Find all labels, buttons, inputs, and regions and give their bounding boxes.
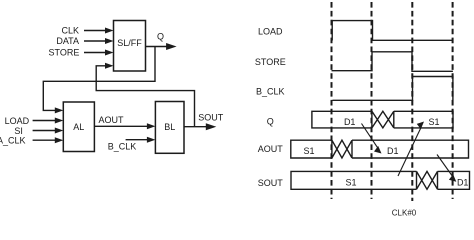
arrowhead AOUT — [147, 123, 156, 129]
svg-text:S1: S1 — [303, 146, 314, 156]
svg-text:A_CLK: A_CLK — [0, 136, 26, 146]
svg-text:LOAD: LOAD — [5, 116, 30, 126]
arrowhead scan feedback — [105, 63, 114, 69]
arrowhead A_CLK — [55, 137, 64, 143]
wire DATA — [84, 40, 106, 42]
svg-text:AOUT: AOUT — [99, 115, 125, 125]
dashed clock boundary 4 — [452, 2, 454, 199]
svg-text:SL/FF: SL/FF — [117, 38, 142, 48]
arrowhead LOAD — [55, 118, 64, 124]
bus Q — [312, 111, 453, 128]
arrowhead DATA — [105, 38, 114, 44]
arrowhead to Q S1 — [417, 122, 424, 130]
dashed clock boundary 1 — [331, 2, 333, 199]
arrowhead Q — [166, 43, 177, 50]
arrowhead to AOUT D1 — [374, 146, 382, 154]
block BL — [155, 102, 184, 154]
wire CLK — [84, 30, 106, 32]
svg-text:SOUT: SOUT — [258, 178, 284, 188]
svg-text:CLK: CLK — [61, 26, 79, 36]
dashed clock boundary 2 — [371, 2, 373, 199]
svg-text:DATA: DATA — [56, 36, 79, 46]
svg-text:B_CLK: B_CLK — [108, 142, 137, 152]
wire scan feedback into SL/FF — [96, 66, 194, 127]
svg-text:SI: SI — [14, 126, 23, 136]
svg-text:SOUT: SOUT — [198, 113, 224, 123]
waveform B_CLK — [333, 77, 453, 101]
svg-text:STORE: STORE — [49, 48, 80, 58]
wire A_CLK — [33, 139, 55, 141]
arrowhead Q feedback — [55, 107, 64, 113]
wire Q feedback to AL — [43, 47, 155, 111]
svg-text:STORE: STORE — [255, 57, 286, 67]
arrowhead to SOUT D1 — [449, 174, 456, 182]
wire B_CLK — [126, 139, 147, 141]
svg-text:Q: Q — [157, 32, 164, 42]
arrowhead SI — [55, 128, 64, 134]
arrow Q D1 to AOUT D1 — [362, 124, 379, 149]
wire SOUT — [184, 126, 207, 128]
wire LOAD — [33, 120, 55, 122]
bus SOUT — [291, 171, 470, 189]
svg-text:D1: D1 — [457, 177, 469, 187]
wire Q output — [146, 46, 168, 48]
svg-text:AOUT: AOUT — [258, 144, 284, 154]
wire SI — [33, 130, 55, 132]
svg-text:BL: BL — [164, 122, 175, 132]
arrowhead STORE — [105, 50, 114, 56]
svg-text:AL: AL — [73, 122, 84, 132]
arrowhead SOUT — [206, 123, 217, 130]
svg-text:S1: S1 — [428, 117, 439, 127]
block SL/FF — [114, 21, 146, 72]
svg-text:LOAD: LOAD — [258, 27, 283, 37]
arrowhead B_CLK — [147, 137, 156, 143]
waveform STORE — [332, 52, 453, 72]
svg-text:CLK#0: CLK#0 — [392, 208, 417, 216]
arrowhead CLK — [105, 28, 114, 34]
svg-text:S1: S1 — [345, 178, 356, 188]
svg-text:B_CLK: B_CLK — [256, 87, 285, 97]
waveform LOAD — [332, 21, 453, 41]
svg-text:D1: D1 — [344, 117, 356, 127]
dashed clock boundary 3 — [411, 2, 413, 201]
svg-text:Q: Q — [267, 116, 274, 126]
wire STORE — [84, 52, 106, 54]
bus AOUT — [291, 140, 469, 158]
wire AOUT — [94, 125, 147, 127]
arrow SOUT S1 to Q S1 — [398, 128, 421, 177]
svg-text:D1: D1 — [387, 146, 399, 156]
arrow AOUT to SOUT D1 — [437, 155, 453, 178]
block AL — [63, 102, 94, 152]
